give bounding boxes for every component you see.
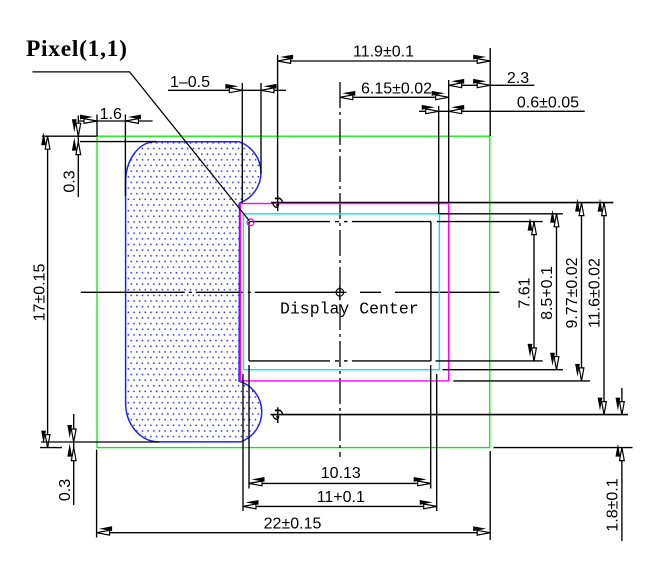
svg-text:0.6±0.05: 0.6±0.05 bbox=[517, 95, 579, 112]
svg-text:17±0.15: 17±0.15 bbox=[31, 264, 48, 322]
svg-text:11.9±0.1: 11.9±0.1 bbox=[353, 43, 414, 60]
horizontal centerline left part bbox=[81, 291, 344, 293]
dimension 2.3 bbox=[449, 70, 535, 88]
dimension 10.13 bbox=[249, 365, 431, 489]
svg-text:0.3: 0.3 bbox=[57, 479, 74, 501]
dimension 17±0.15 bbox=[31, 132, 96, 447]
svg-text:22±0.15: 22±0.15 bbox=[264, 515, 322, 532]
dimension 1-0.5 bbox=[168, 74, 286, 203]
dimension 1.8±0.1 bbox=[494, 388, 633, 541]
leader line from Pixel(1,1) to corner bbox=[32, 72, 249, 221]
dimension 0.6±0.05 bbox=[419, 95, 585, 214]
svg-text:7.61: 7.61 bbox=[517, 277, 534, 308]
display center mark circle bbox=[332, 285, 347, 300]
dimension 0.3 top bbox=[62, 116, 157, 198]
svg-text:2.3: 2.3 bbox=[507, 70, 529, 87]
datum symbol on glass bottom edge bbox=[273, 407, 283, 423]
svg-text:8.5+0.1: 8.5+0.1 bbox=[539, 266, 556, 320]
svg-text:9.77±0.02: 9.77±0.02 bbox=[564, 257, 581, 328]
svg-text:1–0.5: 1–0.5 bbox=[170, 74, 210, 91]
dimension 22±0.15 bbox=[97, 450, 491, 540]
dimension 9.77±0.02 bbox=[453, 199, 590, 381]
glass bottom edge line B bbox=[271, 414, 629, 416]
svg-text:6.15±0.02: 6.15±0.02 bbox=[361, 81, 432, 98]
vertical centerline bbox=[339, 82, 341, 457]
dimension 1.6 bbox=[78, 106, 152, 196]
dimension 6.15±0.02 bbox=[340, 80, 449, 203]
svg-text:Pixel(1,1): Pixel(1,1) bbox=[26, 36, 128, 62]
green outer frame outline 22x17 bbox=[97, 136, 490, 447]
magenta pixel(1,1) marker circle bbox=[247, 219, 254, 226]
glass top edge line A bbox=[271, 202, 613, 204]
active display area rectangle bbox=[249, 222, 431, 361]
cyan viewing-area rectangle bbox=[244, 214, 440, 370]
svg-text:Display Center: Display Center bbox=[280, 300, 419, 319]
dimension 8.5+0.1 bbox=[440, 210, 564, 370]
dimension 11+0.1 bbox=[243, 374, 437, 511]
svg-text:1.8±0.1: 1.8±0.1 bbox=[605, 478, 622, 531]
dimension 7.61 bbox=[436, 218, 543, 361]
svg-text:11.6±0.02: 11.6±0.02 bbox=[587, 258, 604, 328]
svg-text:1.6: 1.6 bbox=[100, 106, 122, 123]
dimension 0.3 bottom bbox=[41, 414, 159, 505]
datum symbol on glass top edge bbox=[273, 195, 283, 211]
dimension 11.6±0.02 bbox=[587, 199, 607, 415]
svg-text:10.13: 10.13 bbox=[321, 465, 361, 482]
magenta bezel rectangle bbox=[240, 204, 448, 381]
dimension 11.9±0.1 bbox=[278, 43, 491, 197]
svg-text:11+0.1: 11+0.1 bbox=[317, 489, 365, 506]
blue hatched polarizer outline with dot fill bbox=[126, 142, 262, 442]
svg-text:0.3: 0.3 bbox=[62, 170, 79, 192]
horizontal centerline right part bbox=[360, 291, 499, 293]
